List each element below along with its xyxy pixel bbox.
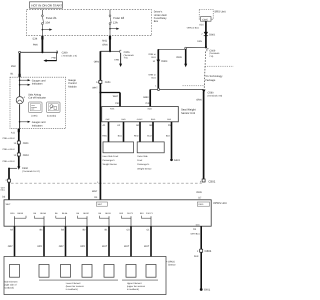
svg-text:G651: G651 <box>204 289 211 292</box>
svg-text:C801: C801 <box>23 142 30 145</box>
lower element group line + label <box>39 280 118 291</box>
svg-text:B6 A4: B6 A4 <box>62 212 68 215</box>
fuse F21 10A <box>42 10 57 36</box>
svg-text:C804: C804 <box>23 154 30 157</box>
diode D804 <box>148 60 168 88</box>
svg-text:C660: C660 <box>22 167 29 170</box>
svg-text:GRY: GRY <box>80 245 85 248</box>
svg-text:Inner Side Front: Inner Side Front <box>103 155 119 158</box>
svg-text:ORN: ORN <box>196 191 202 194</box>
svg-text:GRN: GRN <box>143 96 149 99</box>
svg-text:C326: C326 <box>124 51 131 54</box>
svg-text:C805: C805 <box>202 19 208 22</box>
fuse F18 13A <box>109 10 124 36</box>
svg-text:C580: C580 <box>208 91 215 94</box>
svg-text:OPDS Unit: OPDS Unit <box>213 202 226 205</box>
svg-text:C609: C609 <box>209 49 216 52</box>
svg-text:SRS Unit: SRS Unit <box>214 10 225 13</box>
wire PNK from E34 <box>33 36 44 53</box>
'06 Technology Package (dashed box) <box>183 66 234 86</box>
pin E34 <box>33 38 38 41</box>
svg-text:in seatback): in seatback) <box>66 288 78 291</box>
svg-text:'06 Technology: '06 Technology <box>205 75 223 78</box>
node circle seat-weight junction <box>157 88 159 90</box>
svg-text:WHT/BLU: WHT/BLU <box>191 232 201 235</box>
svg-text:G601: G601 <box>174 159 181 162</box>
node left feed circle <box>19 51 21 53</box>
svg-text:(USA): (USA) <box>31 115 37 118</box>
internal pin hook 4 (pins B6 B2) <box>77 212 90 226</box>
svg-text:WHT: WHT <box>6 203 12 206</box>
element square 4 <box>82 265 92 278</box>
svg-text:Indicators: Indicators <box>32 83 44 86</box>
connector C801 pin 2 (bottom right) <box>194 249 212 258</box>
wire from junction right to C580 path <box>160 89 204 91</box>
svg-text:Sensor: Sensor <box>168 263 176 266</box>
connector C804 inline <box>3 153 30 163</box>
svg-text:D801: D801 <box>209 33 216 36</box>
svg-text:PNK or BLU: PNK or BLU <box>3 160 15 163</box>
wire B3 GRY <box>59 226 66 264</box>
svg-text:Outer Side: Outer Side <box>137 155 148 158</box>
svg-text:BLU: BLU <box>152 76 157 79</box>
svg-text:WHT: WHT <box>144 245 150 248</box>
svg-text:GRN or: GRN or <box>148 74 156 77</box>
gauge control module (dashed box) <box>10 77 77 129</box>
svg-text:GRN or: GRN or <box>148 53 156 56</box>
connector C326 (Terminals 7-8) branch <box>109 50 135 60</box>
wire ORN or BLU from SRS A14 <box>187 21 206 47</box>
svg-text:(Terminals: (Terminals <box>124 54 135 57</box>
ground G601 <box>170 159 180 163</box>
pin C3 wire BLK to ground <box>166 122 172 159</box>
junction + arrow to other circuits (fuse 18) <box>109 28 119 30</box>
svg-text:C51: C51 <box>115 102 120 105</box>
internal pin hook 6 (pins D6 C3) <box>119 212 133 226</box>
node + arrow to gauges and indicators (bottom) <box>19 121 46 128</box>
wire below bulb <box>19 104 21 128</box>
wire B4 GRY <box>37 226 44 264</box>
inner side front passenger's weight sensor <box>103 142 134 166</box>
svg-text:Sensor Unit: Sensor Unit <box>181 112 195 115</box>
indicator window USA <box>29 102 43 118</box>
connector C801 dashed seat boundary <box>11 182 202 184</box>
svg-text:WHT: WHT <box>124 245 130 248</box>
svg-text:C42: C42 <box>146 102 151 105</box>
svg-text:Weight Sensor: Weight Sensor <box>137 167 152 170</box>
svg-text:D10 C1: D10 C1 <box>146 212 154 215</box>
off-page arrow down (ORN) <box>176 49 187 67</box>
svg-text:Fuse 21: Fuse 21 <box>46 16 57 20</box>
svg-text:A14: A14 <box>199 23 204 26</box>
wire ORN to D7 <box>196 191 202 200</box>
svg-text:PWS: PWS <box>110 108 115 111</box>
svg-text:PNK or BLU: PNK or BLU <box>3 148 15 151</box>
svg-text:RED: RED <box>134 134 139 137</box>
svg-text:Upper Element: Upper Element <box>127 282 142 285</box>
svg-text:BLU: BLU <box>152 56 157 59</box>
svg-text:SWS: SWS <box>148 108 153 111</box>
svg-text:E34: E34 <box>33 38 38 41</box>
svg-text:ORN: ORN <box>94 60 100 63</box>
svg-text:RWG: RWG <box>151 118 156 121</box>
internal pin hook 5 (pins B6 B1) <box>99 212 112 226</box>
pin N41 <box>102 40 107 43</box>
svg-text:BLU: BLU <box>118 134 123 137</box>
svg-text:Fuse 18: Fuse 18 <box>113 16 124 20</box>
off-page arrow left PNK <box>43 52 56 62</box>
svg-text:Box: Box <box>154 20 159 23</box>
ground G651 <box>200 288 211 292</box>
svg-text:C801: C801 <box>205 249 212 253</box>
pin B1 wire RED <box>134 122 140 142</box>
svg-text:GRY: GRY <box>8 245 13 248</box>
svg-text:B6 B2: B6 B2 <box>83 212 89 215</box>
wire down left to OPDS unit D3 <box>8 168 10 200</box>
connector C801 pin 2 (left) <box>5 179 10 182</box>
svg-text:PNK or BLU: PNK or BLU <box>3 137 15 140</box>
svg-text:in seatback): in seatback) <box>127 288 139 291</box>
svg-text:GRY: GRY <box>59 245 64 248</box>
OPDS unit box <box>4 200 227 226</box>
svg-text:BLU: BLU <box>147 134 152 137</box>
wire WHT into seat weight sensor C51 <box>100 93 120 107</box>
upper element group line + label <box>122 280 158 291</box>
svg-text:WHT: WHT <box>92 86 98 89</box>
svg-text:GWUP: GWUP <box>137 118 143 121</box>
wire inside gauge module <box>19 77 21 96</box>
svg-text:C801: C801 <box>208 180 215 184</box>
svg-text:Passenger's: Passenger's <box>137 163 150 166</box>
svg-text:7-8): 7-8) <box>124 57 128 60</box>
svg-text:N41: N41 <box>102 40 107 43</box>
svg-text:GRN: GRN <box>196 98 202 101</box>
junction + arrow to other circuits (fuse 21) <box>42 28 53 30</box>
pin B3 wire BLU <box>147 122 153 142</box>
svg-text:WHT: WHT <box>92 190 98 193</box>
connector C805 <box>201 17 211 22</box>
svg-text:Cut-off Indicator: Cut-off Indicator <box>28 97 46 100</box>
diode D801 <box>197 32 216 43</box>
wire WHT or BLU to D3 <box>0 186 6 198</box>
internal label box D510 (right) <box>197 202 209 206</box>
svg-text:(Terminals 4-9): (Terminals 4-9) <box>208 95 223 98</box>
fuse/relay box (dashed) <box>27 10 152 36</box>
wire A2 GRY to side element <box>8 226 15 264</box>
svg-text:ORN or BLU: ORN or BLU <box>187 27 200 30</box>
SRS unit (dashed box) <box>199 9 226 19</box>
connector C801 pin 4 (right) <box>200 179 216 184</box>
svg-text:(right side of: (right side of <box>4 284 16 287</box>
svg-text:7-8): 7-8) <box>209 55 213 58</box>
wire PNK or BLU to C801 <box>3 129 20 168</box>
svg-text:Module: Module <box>68 85 77 88</box>
seat weight sensor unit <box>102 107 196 122</box>
svg-text:WHT: WHT <box>102 245 108 248</box>
svg-text:D6 C3: D6 C3 <box>127 212 134 215</box>
svg-text:C309: C309 <box>62 51 69 54</box>
svg-text:( Terminals 1-8): ( Terminals 1-8) <box>62 54 77 57</box>
svg-text:B6 B1: B6 B1 <box>105 212 111 215</box>
svg-text:(Canada): (Canada) <box>47 115 56 118</box>
svg-text:BLK: BLK <box>194 255 199 258</box>
svg-text:Passenger's: Passenger's <box>103 159 116 162</box>
wire B2 GRY <box>80 226 87 264</box>
svg-text:WHT: WHT <box>98 203 103 206</box>
label OPDS Sensor <box>166 260 176 266</box>
svg-text:GWG: GWG <box>121 118 126 121</box>
svg-text:(upper tier sensors: (upper tier sensors <box>127 285 146 288</box>
svg-text:ORN: ORN <box>102 44 108 47</box>
connector C651 <box>92 80 111 89</box>
svg-text:ORN: ORN <box>114 58 119 61</box>
svg-text:BLK: BLK <box>166 134 171 137</box>
wire D4 WHT/BLU to ground <box>191 226 202 289</box>
OPDS sensor outer box <box>4 257 166 295</box>
svg-text:Package: Package <box>205 79 216 82</box>
svg-text:Front: Front <box>137 159 142 162</box>
svg-text:B6 B5: B6 B5 <box>18 212 24 215</box>
svg-text:PNK: PNK <box>33 43 38 46</box>
connector C801 inline <box>3 141 30 151</box>
svg-text:GRY: GRY <box>37 245 42 248</box>
wire to D804 branch <box>148 49 184 88</box>
svg-text:RED: RED <box>102 134 107 137</box>
power label box HOT IN ON OR START <box>30 2 63 8</box>
internal pin hook 1 (pins B3 6) <box>10 212 26 226</box>
svg-text:(lower tier sensors: (lower tier sensors <box>66 285 85 288</box>
svg-text:Side Element: Side Element <box>4 281 17 284</box>
connector C609 (Terminals 7-8) <box>207 49 220 58</box>
indicator bulb (side airbag cutoff) <box>16 93 46 103</box>
svg-text:D804: D804 <box>161 60 168 63</box>
outer side front passenger's weight sensor <box>137 142 164 171</box>
svg-text:B5 B4: B5 B4 <box>40 212 46 215</box>
pin A2 wire BLU <box>117 122 123 142</box>
wire C3 WHT <box>124 226 131 264</box>
svg-text:or BLU: or BLU <box>0 189 6 192</box>
internal label box WHT (middle) <box>96 202 107 206</box>
internal label D16 <box>196 223 201 226</box>
wire down to C801 pin 4 <box>196 92 203 179</box>
wire ORN from N41 <box>102 36 111 52</box>
svg-text:seatback): seatback) <box>4 287 14 290</box>
element square 1 <box>10 265 20 278</box>
svg-text:PNK: PNK <box>11 65 16 68</box>
pin A1 wire RED <box>102 122 108 142</box>
wire GRN into seat weight sensor C42 <box>143 90 157 107</box>
element square 7 <box>146 265 156 278</box>
svg-text:ORN: ORN <box>176 56 182 59</box>
svg-text:(Terminals: (Terminals <box>209 52 220 55</box>
internal label WHT (left) <box>6 203 12 206</box>
wire PNK down to gauge module B1 <box>10 53 20 77</box>
svg-text:Indicators: Indicators <box>32 124 44 127</box>
element square 6 <box>126 265 136 278</box>
svg-text:Weight Sensor: Weight Sensor <box>103 163 118 166</box>
node junction seat-weight branch <box>99 91 101 93</box>
internal pin hook 3 (pins B6 A4) <box>55 212 68 226</box>
dashed wire '06 tech package routing <box>204 52 205 90</box>
wire horizontal to circle node <box>185 47 206 49</box>
pin A11 <box>11 132 16 135</box>
svg-text:10A: 10A <box>45 22 50 25</box>
element square 5 <box>104 265 114 278</box>
wire C1 WHT <box>144 226 151 264</box>
svg-text:13A: 13A <box>113 22 118 25</box>
svg-text:ORN: ORN <box>197 40 202 43</box>
connector C580 (Terminals 4-9) arrow <box>202 90 222 98</box>
element square 3 <box>61 265 71 278</box>
label Driver's Under-dash Fuse/Relay Box <box>154 11 168 24</box>
internal pin hook 2 (pins B5 B4) <box>34 212 47 226</box>
node + arrows to gauges and indicators (top) <box>19 79 46 86</box>
indicator window Canada <box>47 102 61 118</box>
svg-text:( Terminals 16-12): ( Terminals 16-12) <box>22 170 40 173</box>
internal pin hook 7 (pins D10 C1) <box>140 212 154 226</box>
svg-text:C651: C651 <box>105 81 112 84</box>
node junction SRS feed <box>205 46 207 48</box>
side element label <box>4 281 17 290</box>
wire ORN main to C651 <box>94 51 110 200</box>
off-page arrow down ORN (C326) <box>114 53 122 67</box>
svg-text:Lower Element: Lower Element <box>66 282 81 285</box>
svg-text:A11: A11 <box>11 132 16 135</box>
svg-text:WHT: WHT <box>113 95 119 98</box>
wire middle labels above D4 <box>92 181 101 199</box>
element square 2 <box>39 265 49 278</box>
svg-text:PNK: PNK <box>52 56 57 59</box>
connector C660 (Terminals 16-12) off-page arrow <box>8 166 40 173</box>
svg-text:HOT IN ON OR START: HOT IN ON OR START <box>31 3 62 7</box>
wire B1 WHT <box>102 226 109 264</box>
connector C309 (Terminals 1-8) <box>20 51 77 57</box>
